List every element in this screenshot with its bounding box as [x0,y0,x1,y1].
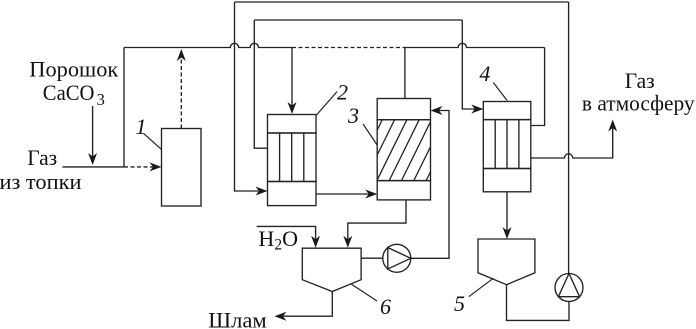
absorber 4 packing section [483,120,531,169]
scrubber 2 header box [268,115,317,134]
wire arrow into reactor 3 right side [431,106,443,115]
wire scrubber 2 to reactor 3 [316,193,373,195]
wire settler 6 to pump 8 [361,257,383,259]
wire arrow into absorber 4 left [471,105,483,114]
absorber 4 sump box [483,169,531,192]
scrubber 2 packing section [268,133,317,182]
label 6 leader [352,284,378,301]
label 4 leader [493,83,507,101]
svg-text:6: 6 [380,294,391,319]
wire feed into reactor 3 top [404,48,406,99]
wire dashed bypass riser from apparatus 1 [180,54,182,129]
vessel 5 hopper [478,239,535,285]
apparatus 1 body [162,129,202,207]
wire second loop left vertical into scrubber 2 middle [254,20,267,148]
label 5 leader [469,278,494,297]
wire arrow up to atmosphere [608,120,617,132]
reactor 3 packed bed hatched box [377,120,430,181]
wire second loop right vertical down to absorber 4 inlet [462,20,479,109]
svg-text:2: 2 [337,80,348,105]
wire right descent into absorber 4 right side [531,48,545,126]
wire arrow sludge to left [274,312,286,321]
wire gas from furnace horizontal [62,166,124,168]
wire H2O feed line [257,226,316,243]
wire arrow into settler 6 left inlet [311,236,320,248]
svg-text:5: 5 [454,291,465,316]
svg-text:CaCO: CaCO [43,80,95,105]
reactor 3 header box [377,99,430,120]
wire top loop right vertical down to pump 7 [568,2,570,274]
absorber 4 header box [483,102,531,120]
pump 8 circle [383,244,411,272]
svg-text:4: 4 [479,61,490,86]
wire arrow into scrubber 2 top [288,102,297,114]
wire drop into scrubber 2 top [291,48,293,110]
absorber 4 packing slats [495,120,519,169]
wire absorber 4 bottom outlet to vessel 5 [506,192,508,234]
wire main gas header solid left with hops [124,43,292,47]
svg-text:Шлам: Шлам [208,308,266,329]
wire arrow into apparatus 1 [150,162,162,171]
label 1 leader [144,134,162,150]
wire main gas header solid right with hop [405,43,545,47]
wire top loop left vertical down to scrubber 2 bottom inlet [235,2,264,191]
wire settler 6 sludge outlet [280,292,333,317]
wire vessel 5 outlet to pump 7 [507,285,570,321]
pump 8 triangle [388,248,411,269]
svg-text:3: 3 [97,90,105,109]
svg-text:в атмосферу: в атмосферу [582,91,695,116]
reactor 3 hatching [352,120,468,181]
wire reactor 3 bottom outlet to settler 6 [348,200,406,243]
pump 7 circle [555,274,583,302]
svg-text:Газ: Газ [27,145,57,170]
wire dashed branch into apparatus 1 [124,166,156,168]
wire main gas header dashed middle [292,47,405,49]
label 2 leader [317,92,338,115]
wire top recirculation loop horizontal [235,1,569,3]
wire second loop horizontal [254,19,462,21]
scrubber 2 packing slats [280,133,304,182]
wire pump 8 discharge riser to reactor 3 [411,111,449,259]
wire absorber 4 outlet to atmosphere with hop [531,125,613,159]
wire arrow into settler 6 right inlet [343,236,352,248]
svg-text:H: H [258,226,274,251]
scrubber 2 sump box [268,182,317,206]
svg-text:Порошок: Порошок [29,56,118,81]
settler 6 hopper [302,248,361,291]
svg-text:из топки: из топки [0,169,82,194]
wire CaCO3 powder feed arrow [92,106,94,160]
svg-text:Газ: Газ [625,68,655,93]
svg-text:3: 3 [347,103,359,128]
reactor 3 bottom box [377,181,430,200]
pump 7 triangle [558,274,579,297]
wire arrow into scrubber 2 bottom box [256,187,268,196]
wire arrow up to gas header [177,49,186,61]
svg-text:O: O [282,226,298,251]
wire left riser from furnace gas junction [123,48,125,167]
svg-text:1: 1 [136,114,147,139]
label 3 leader [363,124,377,145]
wire arrow into reactor 3 bottom box [365,190,377,199]
svg-text:2: 2 [274,237,282,254]
wire arrow into vessel 5 [503,227,512,239]
